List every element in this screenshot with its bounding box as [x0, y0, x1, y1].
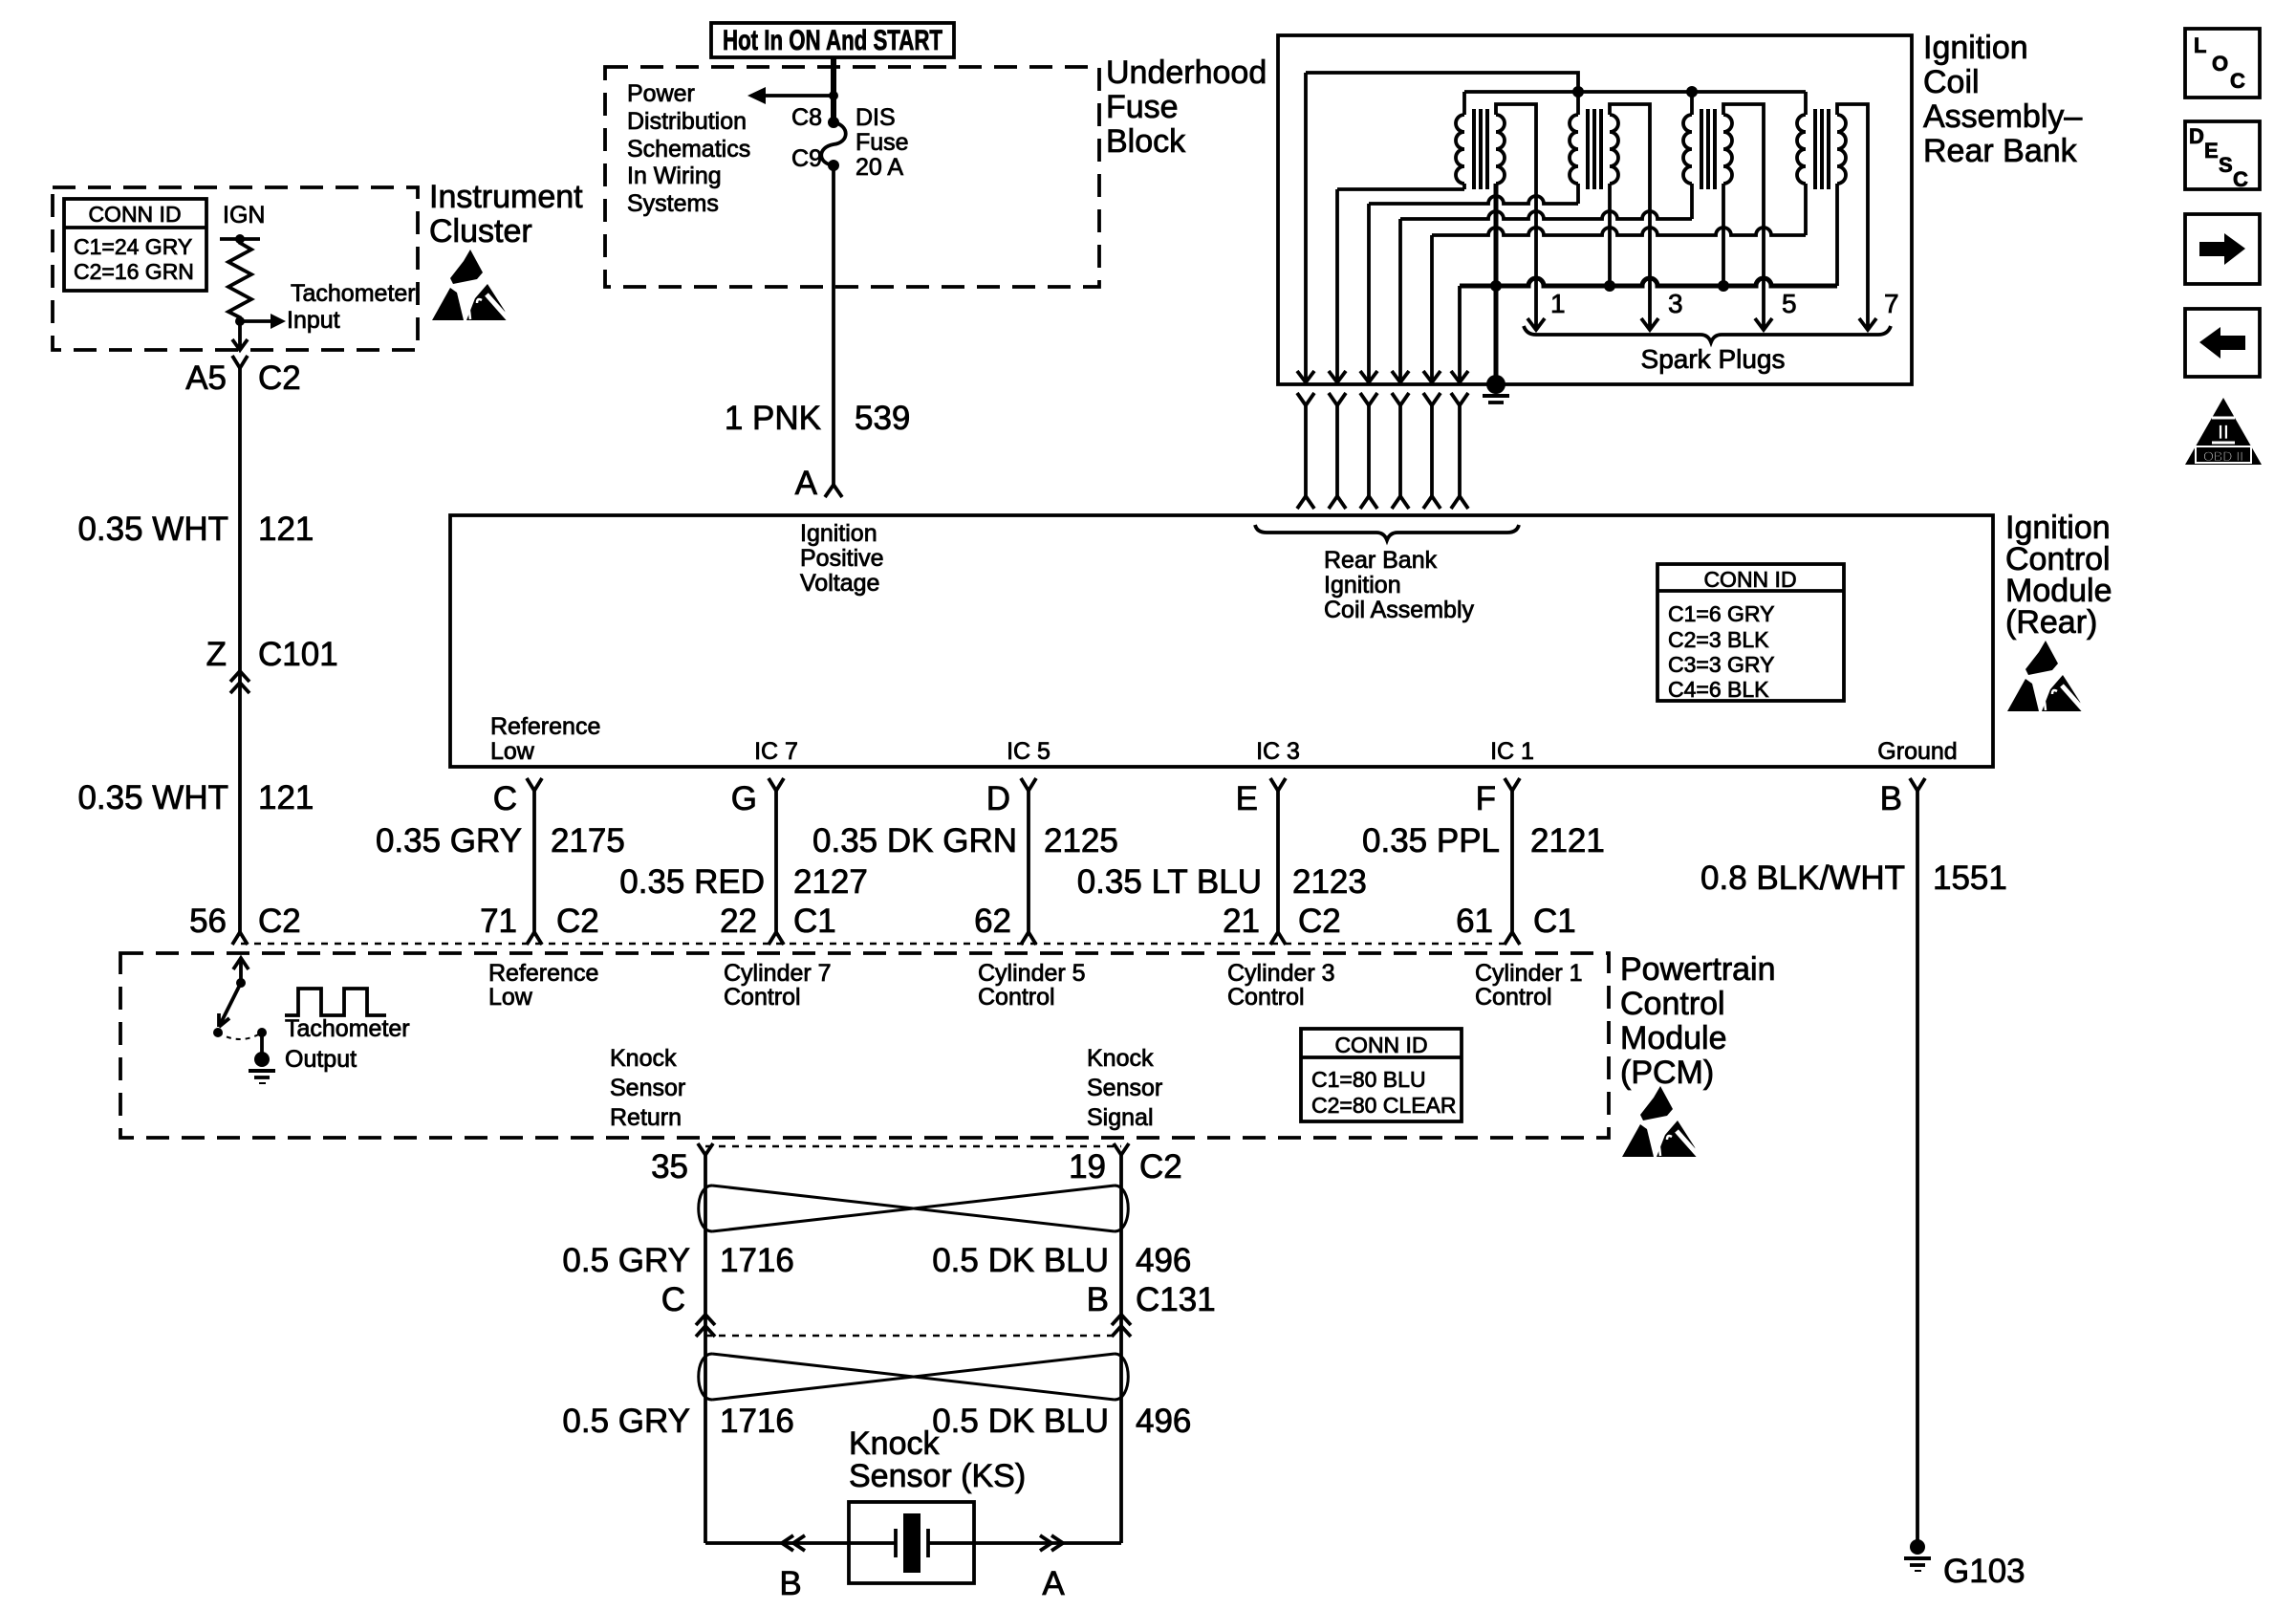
- svg-text:C: C: [493, 780, 517, 817]
- svg-text:In Wiring: In Wiring: [627, 163, 722, 189]
- svg-text:Z: Z: [206, 636, 227, 673]
- svg-text:56: 56: [189, 903, 227, 940]
- svg-text:Control: Control: [1475, 984, 1552, 1011]
- svg-text:A: A: [1042, 1565, 1065, 1602]
- svg-text:C2=80 CLEAR: C2=80 CLEAR: [1311, 1093, 1457, 1118]
- svg-text:62: 62: [974, 903, 1011, 940]
- svg-text:Ground: Ground: [1877, 738, 1957, 765]
- svg-text:C131: C131: [1136, 1281, 1216, 1318]
- svg-text:Tachometer: Tachometer: [291, 280, 416, 307]
- svg-text:Underhood: Underhood: [1106, 54, 1267, 91]
- svg-text:Fuse: Fuse: [1106, 89, 1179, 125]
- svg-text:Reference: Reference: [488, 960, 598, 987]
- svg-text:E: E: [2204, 139, 2219, 163]
- svg-text:Rear Bank: Rear Bank: [1923, 133, 2078, 169]
- svg-text:Voltage: Voltage: [800, 570, 879, 597]
- svg-text:Cylinder 3: Cylinder 3: [1227, 960, 1335, 987]
- svg-text:Sensor: Sensor: [1087, 1075, 1162, 1101]
- svg-text:61: 61: [1456, 903, 1493, 940]
- svg-text:C: C: [661, 1281, 685, 1318]
- svg-text:Schematics: Schematics: [627, 136, 750, 163]
- svg-text:A5: A5: [185, 359, 227, 397]
- svg-text:F: F: [1476, 780, 1496, 817]
- svg-text:Distribution: Distribution: [627, 108, 747, 135]
- svg-text:Hot In ON And START: Hot In ON And START: [723, 25, 942, 56]
- svg-text:S: S: [2219, 153, 2233, 177]
- svg-text:7: 7: [1884, 289, 1899, 318]
- svg-text:B: B: [1880, 780, 1902, 817]
- svg-text:Block: Block: [1106, 123, 1186, 160]
- svg-text:Sensor: Sensor: [610, 1075, 685, 1101]
- svg-text:71: 71: [480, 903, 517, 940]
- svg-text:1716: 1716: [720, 1403, 794, 1440]
- svg-text:G103: G103: [1943, 1553, 2025, 1590]
- svg-text:Control: Control: [978, 984, 1055, 1011]
- svg-text:21: 21: [1223, 903, 1260, 940]
- svg-text:Cluster: Cluster: [429, 213, 532, 250]
- svg-text:O: O: [2212, 52, 2228, 76]
- svg-text:C2: C2: [258, 903, 301, 940]
- svg-text:B: B: [779, 1565, 801, 1602]
- svg-text:C2: C2: [1139, 1148, 1182, 1186]
- svg-text:2125: 2125: [1044, 822, 1118, 859]
- svg-text:CONN ID: CONN ID: [1703, 567, 1796, 592]
- svg-text:539: 539: [855, 400, 910, 437]
- svg-text:Control: Control: [1227, 984, 1305, 1011]
- svg-text:Module: Module: [1620, 1020, 1727, 1056]
- svg-text:DIS: DIS: [856, 104, 896, 131]
- svg-text:(PCM): (PCM): [1620, 1055, 1714, 1091]
- svg-text:IC 1: IC 1: [1490, 738, 1534, 765]
- svg-text:1 PNK: 1 PNK: [725, 400, 821, 437]
- svg-text:D: D: [2189, 124, 2204, 148]
- svg-text:2121: 2121: [1530, 822, 1605, 859]
- svg-text:496: 496: [1136, 1403, 1191, 1440]
- svg-text:L: L: [2194, 33, 2206, 57]
- svg-text:C: C: [2230, 69, 2245, 93]
- svg-text:Output: Output: [285, 1046, 357, 1073]
- svg-text:Control: Control: [724, 984, 801, 1011]
- svg-text:Cylinder 5: Cylinder 5: [978, 960, 1086, 987]
- svg-text:Powertrain: Powertrain: [1620, 951, 1776, 988]
- svg-text:Low: Low: [490, 738, 535, 765]
- svg-text:A: A: [795, 465, 818, 502]
- svg-text:Knock: Knock: [849, 1425, 940, 1462]
- svg-text:C1=24 GRY: C1=24 GRY: [74, 234, 192, 259]
- svg-text:IC 3: IC 3: [1256, 738, 1300, 765]
- svg-text:5: 5: [1782, 289, 1797, 318]
- svg-text:Ignition: Ignition: [1923, 30, 2028, 66]
- svg-text:Fuse: Fuse: [856, 129, 909, 156]
- svg-text:Assembly–: Assembly–: [1923, 98, 2082, 135]
- svg-text:Return: Return: [610, 1104, 682, 1131]
- svg-text:22: 22: [720, 903, 757, 940]
- svg-text:1: 1: [1550, 289, 1566, 318]
- svg-text:Ignition: Ignition: [800, 520, 877, 547]
- svg-text:C9: C9: [791, 145, 822, 172]
- svg-text:C101: C101: [258, 636, 338, 673]
- svg-text:C: C: [2233, 167, 2248, 191]
- svg-text:IGN: IGN: [223, 202, 265, 228]
- svg-text:G: G: [731, 780, 757, 817]
- svg-text:2175: 2175: [551, 822, 625, 859]
- svg-text:0.5 DK BLU: 0.5 DK BLU: [932, 1242, 1109, 1279]
- svg-text:CONN ID: CONN ID: [1334, 1033, 1427, 1057]
- svg-text:IC 5: IC 5: [1007, 738, 1051, 765]
- svg-text:1716: 1716: [720, 1242, 794, 1279]
- svg-text:CONN ID: CONN ID: [88, 202, 181, 227]
- svg-text:35: 35: [651, 1148, 688, 1186]
- svg-text:0.35 DK GRN: 0.35 DK GRN: [812, 822, 1017, 859]
- svg-text:Instrument: Instrument: [429, 179, 583, 215]
- svg-text:0.35 GRY: 0.35 GRY: [376, 822, 522, 859]
- svg-text:IC 7: IC 7: [754, 738, 798, 765]
- svg-text:0.35 PPL: 0.35 PPL: [1362, 822, 1500, 859]
- svg-text:C2=3 BLK: C2=3 BLK: [1668, 627, 1769, 652]
- svg-text:Ignition: Ignition: [1324, 572, 1401, 598]
- svg-text:Coil Assembly: Coil Assembly: [1324, 597, 1474, 623]
- svg-text:Coil: Coil: [1923, 64, 1980, 100]
- svg-text:C2=16 GRN: C2=16 GRN: [74, 259, 194, 284]
- svg-text:121: 121: [258, 511, 314, 548]
- svg-text:Positive: Positive: [800, 545, 884, 572]
- svg-text:B: B: [1087, 1281, 1109, 1318]
- svg-text:C1=6 GRY: C1=6 GRY: [1668, 601, 1774, 626]
- svg-text:121: 121: [258, 779, 314, 816]
- svg-text:Power: Power: [627, 80, 695, 107]
- svg-text:OBD II: OBD II: [2203, 448, 2243, 464]
- svg-text:Reference: Reference: [490, 713, 600, 740]
- svg-text:C2: C2: [258, 359, 301, 397]
- svg-text:1551: 1551: [1933, 859, 2007, 897]
- svg-text:Spark Plugs: Spark Plugs: [1641, 344, 1786, 374]
- svg-text:Tachometer: Tachometer: [285, 1015, 410, 1042]
- svg-text:D: D: [986, 780, 1010, 817]
- svg-text:0.5 DK BLU: 0.5 DK BLU: [932, 1403, 1109, 1440]
- svg-text:C8: C8: [791, 104, 822, 131]
- svg-text:E: E: [1236, 780, 1258, 817]
- svg-text:0.5 GRY: 0.5 GRY: [562, 1242, 690, 1279]
- svg-text:Systems: Systems: [627, 190, 719, 217]
- svg-text:2127: 2127: [793, 863, 868, 901]
- svg-text:Input: Input: [287, 307, 340, 334]
- svg-text:C1: C1: [793, 903, 836, 940]
- svg-text:C4=6 BLK: C4=6 BLK: [1668, 677, 1769, 702]
- svg-text:19: 19: [1069, 1148, 1106, 1186]
- svg-text:C1: C1: [1533, 903, 1576, 940]
- svg-text:20 A: 20 A: [856, 154, 903, 181]
- svg-text:II: II: [2218, 422, 2229, 444]
- svg-text:0.8 BLK/WHT: 0.8 BLK/WHT: [1700, 859, 1905, 897]
- svg-text:Cylinder 7: Cylinder 7: [724, 960, 832, 987]
- svg-text:C2: C2: [556, 903, 599, 940]
- svg-text:0.35 WHT: 0.35 WHT: [77, 779, 228, 816]
- svg-text:3: 3: [1668, 289, 1683, 318]
- svg-text:0.35 WHT: 0.35 WHT: [77, 511, 228, 548]
- svg-text:Control: Control: [1620, 986, 1725, 1022]
- svg-text:Low: Low: [488, 984, 533, 1011]
- svg-text:Cylinder 1: Cylinder 1: [1475, 960, 1583, 987]
- svg-text:0.35 RED: 0.35 RED: [619, 863, 765, 901]
- svg-text:Sensor (KS): Sensor (KS): [849, 1458, 1026, 1494]
- svg-text:Knock: Knock: [610, 1045, 677, 1072]
- svg-text:Knock: Knock: [1087, 1045, 1154, 1072]
- svg-text:Signal: Signal: [1087, 1104, 1154, 1131]
- svg-text:C2: C2: [1298, 903, 1341, 940]
- svg-text:Rear Bank: Rear Bank: [1324, 547, 1438, 574]
- svg-text:C1=80 BLU: C1=80 BLU: [1311, 1067, 1426, 1092]
- svg-text:496: 496: [1136, 1242, 1191, 1279]
- svg-text:0.35 LT BLU: 0.35 LT BLU: [1077, 863, 1262, 901]
- svg-text:0.5 GRY: 0.5 GRY: [562, 1403, 690, 1440]
- svg-text:(Rear): (Rear): [2005, 604, 2097, 641]
- svg-text:2123: 2123: [1292, 863, 1367, 901]
- svg-text:C3=3 GRY: C3=3 GRY: [1668, 652, 1774, 677]
